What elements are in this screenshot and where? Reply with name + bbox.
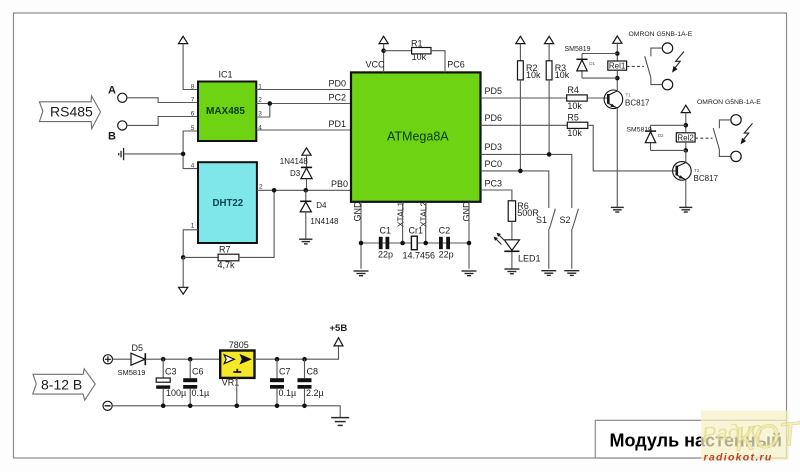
svg-text:SM5819: SM5819 bbox=[118, 368, 146, 377]
wire top rail left bbox=[113, 358, 132, 360]
wire Rel2 coil top bbox=[685, 113, 687, 133]
svg-text:D2: D2 bbox=[658, 133, 664, 138]
wire Rel2 contact leads bbox=[719, 120, 730, 156]
wire A to MAX485 pin7 bbox=[127, 98, 198, 103]
wire ground to node bbox=[124, 153, 184, 155]
relay Rel2 contact lower bbox=[731, 151, 741, 161]
junction dot C7 top bbox=[275, 357, 280, 362]
svg-text:C7: C7 bbox=[279, 367, 291, 377]
wire R7 to PB0 row bbox=[239, 190, 274, 257]
svg-text:6: 6 bbox=[191, 111, 195, 118]
diode D1 SM5819 bbox=[565, 46, 618, 78]
wire XTAL2 pin bbox=[425, 202, 427, 243]
resistor R6 bbox=[508, 201, 539, 222]
lightning bolt Rel2 bbox=[741, 123, 753, 144]
resistor R1 bbox=[384, 38, 431, 62]
svg-text:T2: T2 bbox=[694, 168, 700, 173]
wire B to MAX485 pin6 bbox=[127, 117, 198, 126]
wire DHT22 pin2 to PB0 row bbox=[257, 189, 351, 191]
svg-text:C8: C8 bbox=[307, 367, 319, 377]
capacitor C1 bbox=[378, 225, 393, 259]
power VCC arrow above ATMega bbox=[379, 36, 388, 43]
wire PD5 row bbox=[481, 97, 567, 99]
svg-text:14.7456: 14.7456 bbox=[403, 250, 436, 260]
wire Rel1 coil bottom bbox=[616, 70, 618, 78]
svg-text:S2: S2 bbox=[560, 215, 571, 225]
svg-text:C2: C2 bbox=[439, 225, 451, 235]
ground under LED1 bbox=[504, 269, 519, 274]
svg-text:DHT22: DHT22 bbox=[213, 198, 244, 209]
node minus terminal bbox=[103, 401, 112, 410]
node 8-12V input arrow bbox=[33, 369, 95, 400]
transistor Q2 BC817 bbox=[673, 162, 719, 183]
junction dot R2/PC0 bbox=[518, 169, 523, 174]
title block bbox=[595, 420, 786, 458]
svg-text:Rel2: Rel2 bbox=[677, 133, 694, 142]
svg-text:LED1: LED1 bbox=[518, 253, 541, 263]
svg-text:BC817: BC817 bbox=[694, 174, 719, 183]
wire R5 to Q2 base bbox=[588, 125, 676, 171]
svg-text:RS485: RS485 bbox=[50, 103, 93, 119]
svg-text:Cr1: Cr1 bbox=[409, 225, 424, 235]
svg-text:10k: 10k bbox=[567, 101, 582, 111]
wire pin2-pin3 strap bbox=[256, 104, 270, 118]
switch arm Rel1 bbox=[645, 56, 651, 77]
capacitor C6 bbox=[183, 359, 209, 406]
wire bottom rail bbox=[112, 406, 340, 418]
junction dot C3 top bbox=[161, 357, 166, 362]
svg-text:2: 2 bbox=[259, 184, 263, 191]
svg-text:PD1: PD1 bbox=[329, 119, 347, 129]
svg-text:5: 5 bbox=[191, 125, 195, 132]
svg-text:500R: 500R bbox=[517, 208, 539, 218]
ground (arrow style) under DHT22 bbox=[179, 287, 188, 294]
junction dot Rel1 bottom bbox=[615, 76, 620, 81]
svg-text:100µ: 100µ bbox=[166, 388, 186, 398]
junction dot R7 node bbox=[181, 255, 186, 260]
junction dot C6 top bbox=[188, 357, 193, 362]
svg-text:0.1µ: 0.1µ bbox=[279, 388, 297, 398]
ground under Q1 bbox=[611, 207, 624, 212]
ground (sideways earth) left bbox=[119, 148, 124, 160]
node RS485 input arrow bbox=[39, 96, 100, 129]
power VCC arrow above MAX485 bbox=[179, 36, 188, 43]
switch S1 bbox=[536, 209, 555, 269]
svg-text:PC0: PC0 bbox=[485, 159, 503, 169]
wire LED1 to ground bbox=[511, 252, 513, 269]
capacitor C8 bbox=[298, 359, 324, 406]
node B terminal bbox=[108, 121, 127, 143]
ground under Q2 bbox=[679, 207, 692, 212]
svg-text:10k: 10k bbox=[412, 52, 427, 62]
svg-text:22p: 22p bbox=[378, 249, 393, 259]
power arrow above Rel1 bbox=[613, 36, 622, 43]
resistor R2 bbox=[518, 44, 542, 171]
svg-text:VCC: VCC bbox=[366, 60, 386, 70]
wire 7805 middle pin bbox=[236, 378, 238, 406]
svg-text:PD6: PD6 bbox=[485, 113, 503, 123]
ground PSU right bbox=[331, 418, 349, 426]
wire PC0 row to S1 bbox=[481, 171, 549, 208]
svg-text:R1: R1 bbox=[411, 38, 423, 48]
svg-text:XTAL1: XTAL1 bbox=[396, 201, 406, 227]
dashed link Rel1 bbox=[627, 65, 644, 67]
wire VCC pin bbox=[383, 44, 385, 73]
relay coil Rel2 bbox=[676, 133, 695, 143]
wire Q2 emitter to ground bbox=[685, 180, 687, 208]
wire Q1 emitter to ground bbox=[616, 108, 618, 207]
svg-text:D1: D1 bbox=[589, 61, 595, 66]
relay coil Rel1 bbox=[608, 61, 627, 71]
power arrow above R3 bbox=[545, 36, 554, 43]
svg-text:0.1µ: 0.1µ bbox=[192, 388, 210, 398]
svg-text:C6: C6 bbox=[192, 367, 204, 377]
power arrow above Rel2 bbox=[681, 105, 690, 112]
lightning bolt Rel1 bbox=[672, 52, 684, 73]
resistor R4 bbox=[567, 85, 588, 111]
svg-text:PD5: PD5 bbox=[485, 86, 503, 96]
ground under D4 bbox=[299, 239, 312, 244]
svg-text:BC817: BC817 bbox=[625, 99, 650, 108]
wire VCC to D3 bbox=[306, 155, 308, 167]
junction dot PB0/R7 bbox=[272, 188, 277, 193]
capacitor C7 bbox=[270, 359, 296, 406]
wire Rel2 coil bottom bbox=[685, 142, 687, 150]
sensor DHT22 bbox=[191, 162, 263, 243]
wire PC3 row to R6 bbox=[481, 190, 512, 201]
svg-text:PC2: PC2 bbox=[329, 93, 347, 103]
relay Rel2 contact upper bbox=[731, 115, 741, 125]
svg-text:R4: R4 bbox=[567, 85, 579, 95]
svg-text:IC1: IC1 bbox=[219, 70, 233, 80]
diode D2 SM5819 bbox=[627, 125, 686, 150]
op-amp IC1 MAX485 bbox=[191, 70, 262, 142]
svg-text:C3: C3 bbox=[165, 367, 177, 377]
wire Q2 collector bbox=[685, 150, 687, 162]
svg-text:PD0: PD0 bbox=[329, 79, 347, 89]
capacitor C2 bbox=[439, 225, 454, 259]
junction dot PB0/D3/D4 bbox=[304, 188, 309, 193]
switch arm Rel2 bbox=[713, 128, 719, 150]
ground under S1 bbox=[541, 271, 556, 276]
svg-text:+5B: +5B bbox=[330, 323, 348, 334]
wire to ground arrow bbox=[182, 257, 184, 287]
wire PD3 row to S2 bbox=[481, 154, 572, 208]
wire crystal row bbox=[361, 242, 469, 244]
junction dot Rel1 top bbox=[615, 51, 620, 56]
junction dot pin5/ground/DHT bbox=[181, 152, 186, 157]
svg-text:D3: D3 bbox=[290, 169, 301, 178]
svg-text:7: 7 bbox=[191, 97, 195, 104]
resistor R3 bbox=[546, 44, 570, 155]
junction dot C8 top bbox=[302, 357, 307, 362]
svg-text:T1: T1 bbox=[626, 93, 632, 98]
wire XTAL1 pin bbox=[402, 202, 404, 243]
wire Rel1 contact leads bbox=[651, 48, 662, 85]
svg-text:OMRON G5NB-1A-E: OMRON G5NB-1A-E bbox=[629, 31, 693, 38]
junction dot R3/PD3 bbox=[547, 152, 552, 157]
svg-text:2: 2 bbox=[258, 97, 262, 104]
relay Rel1 contact upper bbox=[662, 43, 672, 53]
svg-text:A: A bbox=[108, 85, 116, 97]
wire GND pin left bbox=[360, 202, 362, 269]
ground under GND left bbox=[354, 271, 369, 276]
capacitor C3 (electrolytic) bbox=[156, 359, 186, 406]
resistor R5 bbox=[567, 112, 588, 138]
MCU U1 ATMega8A bbox=[351, 72, 481, 201]
svg-text:D5: D5 bbox=[132, 343, 144, 353]
svg-text:10k: 10k bbox=[526, 70, 541, 80]
dashed link Rel2 bbox=[695, 137, 712, 139]
junction dots crystal row bbox=[359, 241, 364, 246]
svg-text:PB0: PB0 bbox=[331, 179, 348, 189]
wire MAX485 pin5 to DHT22 pin4 bbox=[183, 131, 198, 169]
wire DHT22 pin1 down bbox=[183, 230, 198, 258]
ground under S2 bbox=[564, 271, 579, 276]
svg-text:SM5819: SM5819 bbox=[565, 46, 591, 53]
wire top rail to 7805 bbox=[145, 358, 220, 360]
svg-text:D4: D4 bbox=[316, 201, 327, 210]
svg-text:1: 1 bbox=[191, 223, 195, 230]
svg-text:GND: GND bbox=[462, 201, 472, 222]
svg-text:PD3: PD3 bbox=[485, 142, 503, 152]
crystal Cr1 bbox=[403, 225, 436, 260]
wire MAX485 pin1 to PD0 bbox=[256, 89, 351, 91]
node plus terminal bbox=[103, 355, 112, 364]
svg-text:B: B bbox=[108, 131, 116, 143]
diode D4 1N4148 bbox=[300, 190, 339, 238]
wire GND pin right bbox=[468, 202, 470, 269]
svg-text:8-12 В: 8-12 В bbox=[41, 377, 82, 393]
wire 7805 output rail bbox=[255, 346, 339, 359]
diode D5 SM5819 bbox=[118, 343, 146, 377]
svg-text:C1: C1 bbox=[380, 225, 392, 235]
diode D3 1N4148 bbox=[280, 157, 312, 191]
wire MAX485 pin4 to PD1 bbox=[256, 129, 351, 131]
svg-text:7805: 7805 bbox=[229, 340, 249, 350]
junction dot VCC/R1 bbox=[381, 48, 386, 53]
wire Q1 collector bbox=[616, 78, 618, 91]
ground under GND right bbox=[462, 271, 477, 276]
junction dot pin2 strap bbox=[268, 101, 273, 106]
resistor R7 bbox=[183, 244, 239, 269]
svg-text:10k: 10k bbox=[555, 70, 570, 80]
svg-text:ATMega8A: ATMega8A bbox=[387, 130, 449, 144]
power arrow above R2 bbox=[516, 36, 525, 43]
svg-text:XTAL2: XTAL2 bbox=[419, 201, 429, 227]
power +5B arrow bbox=[334, 338, 343, 346]
svg-text:OMRON G5NB-1A-E: OMRON G5NB-1A-E bbox=[697, 99, 761, 106]
svg-text:22p: 22p bbox=[439, 249, 454, 259]
junction dot Rel2 top bbox=[684, 123, 689, 128]
relay Rel1 contact lower bbox=[662, 79, 672, 89]
svg-text:MAX485: MAX485 bbox=[206, 106, 245, 117]
wire R1 to PC6 bbox=[431, 51, 445, 73]
svg-text:1N4148: 1N4148 bbox=[310, 217, 339, 226]
svg-text:R7: R7 bbox=[219, 244, 231, 254]
LED LED1 bbox=[494, 233, 541, 264]
wire PD6 row bbox=[481, 124, 568, 126]
switch S2 bbox=[560, 209, 579, 269]
svg-text:radiokot.ru: radiokot.ru bbox=[704, 452, 773, 464]
regulator VR1 7805 bbox=[220, 340, 254, 387]
svg-text:10k: 10k bbox=[567, 128, 582, 138]
wire MAX485 pin2 to PC2 bbox=[256, 103, 351, 105]
wire Rel1 coil top bbox=[616, 43, 618, 61]
junction dots bottom rail bbox=[161, 404, 166, 409]
svg-text:4,7k: 4,7k bbox=[218, 260, 236, 270]
svg-text:8: 8 bbox=[191, 83, 195, 90]
transistor Q1 BC817 bbox=[604, 90, 650, 109]
wire R4 to Q1 base bbox=[587, 97, 607, 99]
wire MAX485 pin8 to VCC bbox=[183, 44, 198, 90]
svg-text:4: 4 bbox=[191, 163, 195, 170]
wire R6 to LED1 bbox=[511, 221, 513, 240]
svg-text:R5: R5 bbox=[567, 112, 579, 122]
power VCC arrow above D3 bbox=[302, 148, 311, 155]
junction dot Rel2 bottom bbox=[684, 148, 689, 153]
svg-text:1N4148: 1N4148 bbox=[280, 157, 309, 166]
watermark radiokot bbox=[701, 411, 800, 464]
svg-text:2.2µ: 2.2µ bbox=[306, 388, 324, 398]
svg-text:SM5819: SM5819 bbox=[627, 126, 653, 133]
svg-text:PC6: PC6 bbox=[447, 60, 465, 70]
svg-text:Rel1: Rel1 bbox=[609, 62, 626, 71]
node A terminal bbox=[108, 85, 127, 103]
svg-text:PC3: PC3 bbox=[485, 178, 503, 188]
